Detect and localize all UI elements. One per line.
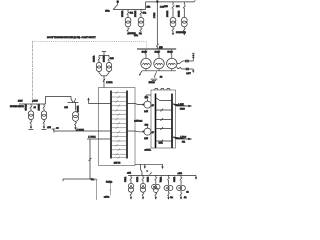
switchgear box 2 outline	[151, 90, 176, 148]
breaker rung 16	[111, 156, 127, 159]
breaker rung 5	[111, 109, 127, 112]
switchgear box 1 outline	[99, 88, 136, 166]
disconnect switch S1	[113, 3, 118, 10]
svg-text:1 T1UB: 1 T1UB	[154, 13, 156, 18]
breaker rung b2-4	[156, 140, 173, 143]
svg-text:x: x	[147, 171, 148, 173]
svg-text:1T01: 1T01	[130, 12, 134, 14]
svg-text:1600kVA: 1600kVA	[92, 55, 95, 62]
svg-text:FDR06: FDR06	[180, 109, 185, 111]
breaker rung 9	[111, 127, 127, 130]
svg-text:1S1B: 1S1B	[110, 58, 113, 60]
wire corner to x96	[90, 179, 98, 200]
node junction J1	[156, 0, 158, 2]
svg-text:630kVA: 630kVA	[173, 177, 176, 182]
svg-text:1NGR1A: 1NGR1A	[149, 81, 155, 84]
svg-text:2000kVA: 2000kVA	[76, 105, 79, 112]
transformer 1TR04	[181, 2, 187, 35]
transformer 1AT right	[68, 98, 79, 129]
svg-text:2500kVA: 2500kVA	[134, 10, 137, 17]
svg-text:MOx: MOx	[91, 179, 95, 181]
svg-text:1600/2000: 1600/2000	[129, 33, 136, 35]
generator DG2	[154, 50, 164, 71]
wire tie 1TIEB vertical	[156, 2, 159, 49]
breaker rung 15	[111, 153, 127, 156]
svg-text:x0x: x0x	[186, 191, 188, 193]
node neutral cyan marker	[156, 70, 158, 72]
wire horiz y179	[63, 179, 90, 181]
svg-text:xxI01: xxI01	[127, 173, 131, 175]
svg-text:F+B101x: F+B101x	[106, 181, 112, 183]
busbar 1A	[110, 91, 112, 159]
tie rung box2	[156, 98, 173, 101]
svg-text:630kVA: 630kVA	[146, 177, 149, 182]
wire bus A	[113, 9, 145, 11]
feeder LT line 2	[87, 138, 111, 140]
motor M2	[144, 128, 151, 135]
svg-text:1M03: 1M03	[164, 6, 168, 8]
motor M2 stub	[147, 126, 149, 128]
busbar 1B	[126, 91, 128, 159]
svg-text:1B/1x: 1B/1x	[134, 35, 138, 37]
arrow boundary end	[32, 101, 34, 104]
svg-text:2x1M: 2x1M	[144, 111, 148, 113]
box2 left stub	[145, 95, 151, 98]
transformer 1ST01 top terminal	[102, 52, 106, 56]
feeder left stub	[88, 98, 111, 103]
svg-text:L 1D0+0: L 1D0+0	[180, 136, 186, 138]
node grid-infeed dot	[117, 1, 119, 3]
svg-text:1 B/SW: 1 B/SW	[33, 101, 39, 103]
svg-text:+1B01: +1B01	[177, 173, 182, 175]
wire 230kV yard line low	[19, 103, 46, 105]
svg-text:x: x	[160, 181, 161, 183]
wire link mid pair	[99, 55, 109, 57]
breaker rung b2-3	[156, 127, 173, 130]
generator bus	[137, 48, 176, 50]
transformer LV4 pair	[164, 175, 173, 198]
svg-text:1Bx: 1Bx	[170, 197, 173, 199]
breaker rung 2	[111, 96, 127, 99]
svg-text:L.T S/S BD: L.T S/S BD	[76, 130, 85, 132]
feeder down line mid	[109, 184, 111, 196]
svg-text:230kV: 230kV	[18, 100, 23, 102]
svg-text:x01: x01	[34, 107, 36, 109]
svg-text:INCOMING LINE N1: INCOMING LINE N1	[10, 106, 24, 108]
motor M2 feed	[127, 130, 144, 133]
svg-text:1-1: 1-1	[139, 33, 141, 35]
svg-text:1T04: 1T04	[176, 6, 180, 8]
wire riser to top tie line	[145, 2, 147, 10]
svg-text:1 D101A: 1 D101A	[106, 81, 113, 84]
motor M1 feed	[127, 104, 144, 105]
breaker rung b2-1	[156, 109, 173, 112]
svg-text:1A02: 1A02	[145, 124, 149, 127]
breaker rung 14	[111, 149, 127, 152]
breaker rung 7	[111, 118, 127, 121]
transformer 1TR03	[170, 2, 176, 35]
breaker rung 8	[111, 122, 127, 125]
motor M1	[144, 101, 151, 108]
svg-text:2x10BGxxA: 2x10BGxxA	[134, 119, 142, 122]
svg-text:xxx: xxx	[56, 128, 59, 130]
svg-text:1T1A: 1T1A	[147, 6, 151, 9]
generator DG3	[167, 50, 177, 71]
svg-text:L.T SUB 1: L.T SUB 1	[88, 137, 95, 139]
busbar 2B	[171, 94, 173, 149]
wire 230kV yard jog	[46, 97, 72, 105]
svg-text:1T02: 1T02	[143, 12, 147, 14]
transformer 1ST02	[106, 56, 112, 76]
breaker rung 3	[111, 100, 127, 103]
transformer LV2	[140, 175, 145, 198]
aux PT chain	[176, 53, 194, 72]
svg-text:1B01x: 1B01x	[105, 11, 110, 13]
svg-text:xxPB1LL: xxPB1LL	[145, 149, 151, 151]
breaker rung 11	[111, 135, 127, 138]
feeder FDR06	[172, 103, 191, 106]
breaker rung 1	[111, 91, 127, 94]
grid line dash-dot	[32, 41, 34, 99]
arrow LV bus end	[195, 175, 197, 179]
svg-text:4x2: 4x2	[160, 77, 163, 79]
breaker rung 4	[111, 105, 127, 108]
LV bus bottom	[128, 174, 196, 176]
svg-text:2500kVA: 2500kVA	[121, 10, 124, 17]
breaker rung 10	[111, 131, 127, 134]
svg-text:630kVA: 630kVA	[136, 177, 139, 182]
svg-text:xxI01xx: xxI01xx	[104, 197, 109, 199]
neutral ground NGR	[151, 79, 158, 82]
svg-text:11kV BD: 11kV BD	[114, 162, 121, 164]
svg-text:1x1PT: 1x1PT	[186, 73, 190, 75]
busbar 2A	[155, 94, 157, 149]
svg-text:L 4B0/X: L 4B0/X	[178, 104, 183, 106]
transformer LV3 cluster	[152, 175, 160, 198]
switch on LV bus	[150, 172, 152, 174]
generator DG1	[141, 50, 151, 71]
svg-text:FBR: FBR	[182, 141, 186, 143]
feeder FBR	[172, 136, 191, 139]
svg-text:2500kVA: 2500kVA	[166, 10, 169, 17]
svg-text:x2P: x2P	[152, 132, 154, 134]
transformer GT2	[41, 104, 46, 129]
wire tie below box1	[135, 164, 163, 168]
breaker rung 12	[111, 140, 127, 143]
breaker rung b2-2	[156, 118, 173, 121]
transformer GT1	[28, 104, 33, 129]
boundary dashed	[33, 41, 147, 100]
motor M1 stub	[147, 99, 149, 102]
transformer 1TR01	[125, 10, 131, 35]
neutral switch to ground	[155, 72, 157, 78]
svg-text:DB01: DB01	[159, 142, 163, 144]
wire drop x90	[89, 139, 92, 179]
wire mid pair to switchgear	[102, 76, 107, 88]
transformer LV5 pair	[177, 175, 186, 198]
transformer 1ST01	[96, 56, 102, 76]
svg-text:xLPE: xLPE	[47, 127, 51, 129]
breaker rung 6	[111, 113, 127, 116]
terminal bar small	[52, 129, 56, 131]
wire neutral bus	[139, 71, 176, 75]
wire top tie line	[146, 0, 196, 2]
svg-text:630kVA: 630kVA	[124, 177, 127, 182]
svg-text:2x1M: 2x1M	[144, 138, 148, 140]
svg-text:1Bx: 1Bx	[184, 197, 187, 199]
svg-text:2500kVA: 2500kVA	[177, 10, 180, 17]
transformer LV1	[128, 175, 133, 198]
svg-text:1AT1: 1AT1	[64, 106, 68, 109]
breaker rung 13	[111, 144, 127, 147]
transformer 1TR02	[138, 10, 144, 35]
feeder LT line 1	[54, 131, 111, 133]
wire feed to LV bus	[141, 164, 143, 175]
fuse bumps on box2 top	[155, 88, 170, 90]
svg-text:x1P: x1P	[152, 105, 154, 107]
svg-text:230 KV TRANSMISSION LINE (22 K: 230 KV TRANSMISSION LINE (22 KM) - PLANT…	[47, 36, 96, 39]
